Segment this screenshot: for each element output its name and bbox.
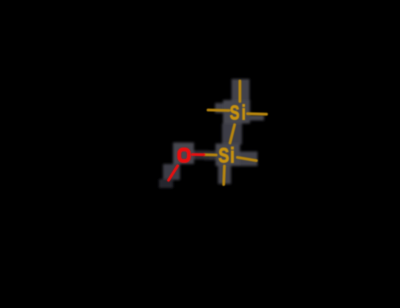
bond O-Si2 gold half xyxy=(204,153,216,156)
halo block O label box xyxy=(173,143,194,165)
bond Si2-CH3 right xyxy=(237,157,256,160)
svg-text:Si: Si xyxy=(218,143,235,166)
halo block diagonal Si-Si xyxy=(222,124,242,145)
halo block right of lower Si xyxy=(240,152,258,167)
halo block above upper Si (top bond) xyxy=(232,79,250,100)
bond Si1-CH3 top (vertical) xyxy=(238,81,241,102)
atom label Si2 (lower) xyxy=(218,143,235,166)
atom label Si1 (upper) xyxy=(230,101,248,124)
bond O-Si2 red half xyxy=(193,153,205,156)
bond O-CH3 (methoxy, diagonal red) xyxy=(169,166,178,181)
halo block lower Si label box xyxy=(216,144,241,167)
svg-text:Si: Si xyxy=(230,101,248,124)
halo block methoxy tail (faint) xyxy=(159,179,173,188)
halo block left of upper Si xyxy=(215,103,223,113)
bond Si1-CH3 right (horizontal) xyxy=(248,112,267,115)
halo block O-Si bond (faint) xyxy=(194,151,209,160)
halo block below lower Si xyxy=(218,166,231,184)
halo block methoxy arm xyxy=(163,164,180,180)
bond Si1-Si2 (diagonal) xyxy=(230,125,235,143)
atom label O (red, drawn as bold ring) xyxy=(179,149,189,161)
halo block left of lower Si (faint) xyxy=(204,151,216,160)
halo block upper Si label box xyxy=(223,100,250,124)
halo block right of upper Si xyxy=(247,115,265,121)
bond Si1-CH3 left (horizontal) xyxy=(208,109,229,112)
bond Si2-CH3 down (vertical) xyxy=(222,166,225,185)
artifact halo layer (jpeg-like gray blocks) xyxy=(159,79,264,188)
